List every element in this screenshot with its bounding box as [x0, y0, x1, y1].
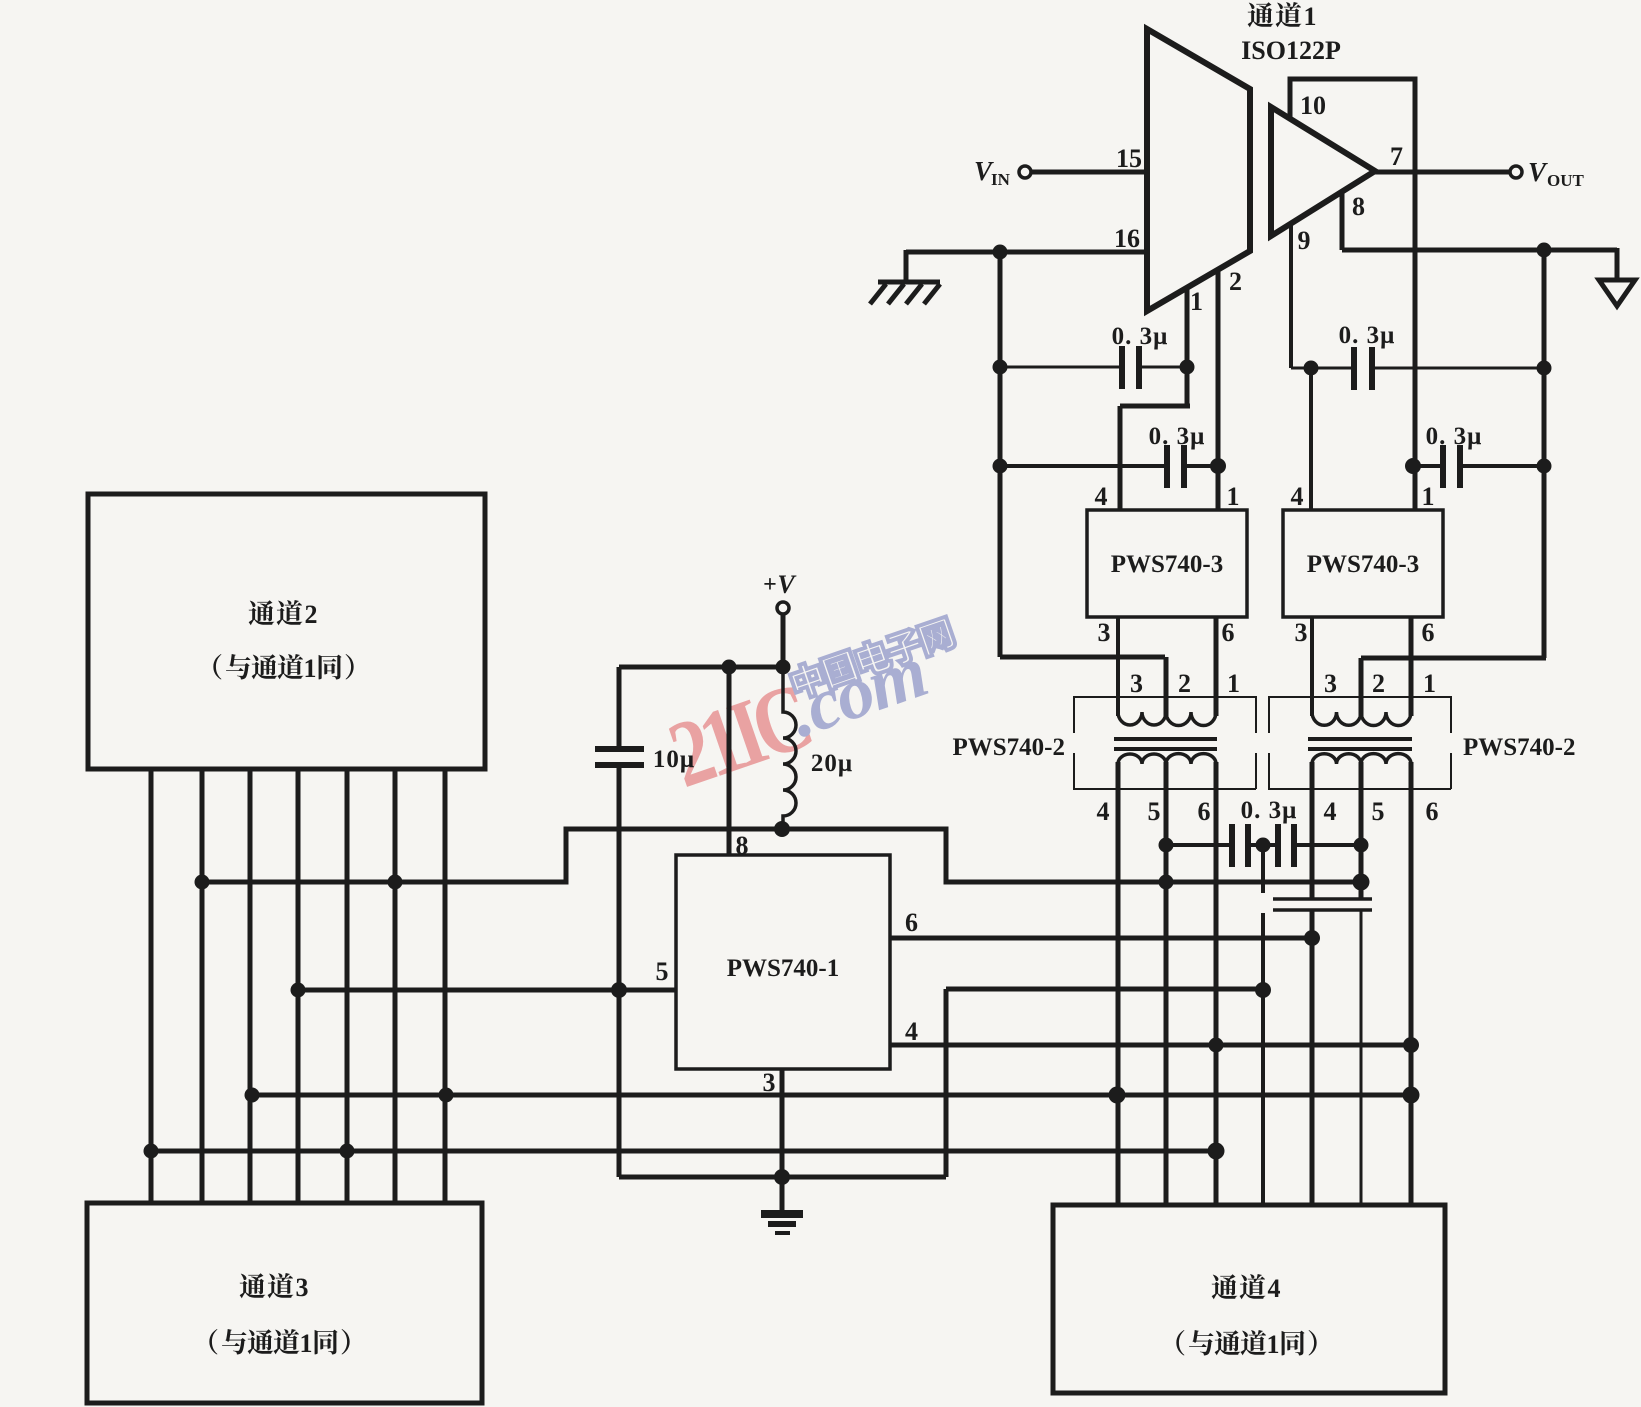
wire T2 pin6 down to CH4	[1409, 762, 1414, 1205]
svg-text:3: 3	[1098, 618, 1111, 647]
junction bus/T1 pin5	[1159, 875, 1174, 890]
svg-text:2: 2	[1178, 669, 1191, 698]
capacitor C6 (horizontal plates)	[1273, 899, 1372, 910]
svg-text:1: 1	[300, 1329, 313, 1358]
junction C3 right	[1537, 361, 1552, 376]
label (与通道1同)	[1176, 1330, 1184, 1356]
watermark 21IC.com 中国电子网	[657, 610, 978, 808]
wire T1 pin4 down to CH4	[1116, 762, 1121, 1205]
label 通道1	[1248, 2, 1274, 27]
wire +V row	[619, 665, 783, 670]
junction pin4/T2 pin6	[1403, 1037, 1419, 1053]
junction pin5/v4	[291, 983, 306, 998]
junction bus/v6	[388, 875, 403, 890]
wire U2 pin3 to T1 pin3	[1116, 617, 1120, 716]
svg-text:7: 7	[1390, 142, 1403, 171]
svg-text:6: 6	[1198, 797, 1211, 826]
transformer T2 primary winding	[1312, 700, 1411, 726]
svg-text:V: V	[777, 570, 797, 599]
svg-text:2: 2	[1372, 669, 1385, 698]
svg-text:20μ: 20μ	[811, 750, 853, 777]
svg-text:15: 15	[1116, 144, 1142, 173]
wire pin 8 lead	[1340, 190, 1345, 250]
wire CH2 bus v3	[248, 769, 253, 1203]
wire pin1-to-pin4 jog	[1120, 404, 1190, 409]
terminal +V	[777, 602, 789, 614]
wire ground lead output	[1615, 248, 1620, 281]
wire CH2 bus v1	[149, 769, 154, 1203]
wire CH2 bus v6	[393, 769, 398, 1203]
wire PWS740-3L pin 4 lead	[1118, 406, 1123, 510]
junction C5 right	[1354, 838, 1369, 853]
wire pin 6 row	[890, 936, 1312, 941]
svg-text:+: +	[763, 572, 777, 598]
svg-text:1: 1	[1190, 287, 1203, 316]
svg-text:V: V	[1528, 157, 1548, 187]
wire U3 pin3 to T2 pin3	[1310, 617, 1314, 716]
wire bus y1151	[151, 1149, 1216, 1154]
junction C1 left	[993, 360, 1008, 375]
wire pin 5 row	[298, 988, 676, 993]
wire pin 3 ground lead	[780, 1069, 785, 1211]
svg-text:1: 1	[1227, 482, 1240, 511]
junction C2 right / pin2	[1210, 458, 1226, 474]
terminal V_IN	[1019, 166, 1031, 178]
wire CH2 bus v5	[345, 769, 350, 1203]
svg-text:10μ: 10μ	[653, 746, 695, 773]
wire gnd row y1177	[619, 1175, 946, 1180]
oscillator U4 PWS740-1	[676, 855, 890, 1069]
svg-text:1: 1	[1227, 669, 1240, 698]
label 通道3	[240, 1273, 266, 1298]
svg-text:10: 10	[1300, 91, 1326, 120]
junction pin4/T1 pin6	[1209, 1038, 1224, 1053]
transformer T2 PWS740-2 box	[1269, 697, 1451, 789]
junction pin9/pin4R	[1304, 361, 1319, 376]
wire x1000 input-gnd vertical	[998, 250, 1003, 657]
svg-text:16: 16	[1114, 224, 1140, 253]
wire T1 pin2 lead	[1164, 657, 1169, 716]
junction bus/L1 bottom	[774, 821, 790, 837]
wire CH2 bus v4	[296, 769, 301, 1203]
junction C1 right / pin1	[1180, 360, 1195, 375]
wire output ground row	[1342, 248, 1617, 253]
junction bus/T2 pin5	[1353, 874, 1370, 891]
rectifier U3 PWS740-3 right	[1283, 510, 1443, 617]
svg-text:ISO122P: ISO122P	[1241, 36, 1341, 65]
block 通道4	[1053, 1205, 1445, 1393]
svg-text:0. 3μ: 0. 3μ	[1339, 322, 1396, 349]
junction +V/pin8	[722, 660, 737, 675]
svg-text:1: 1	[304, 654, 317, 683]
wire T2 pin5 to cap plate	[1359, 762, 1364, 899]
svg-text:6: 6	[1426, 797, 1439, 826]
wire U3 pin6 to T2 pin1	[1409, 617, 1414, 716]
svg-text:4: 4	[1324, 797, 1337, 826]
svg-text:4: 4	[1291, 482, 1304, 511]
junction pin3/gnd row	[774, 1169, 790, 1185]
wire CH2 bus v2	[200, 769, 205, 1203]
svg-text:5: 5	[1148, 797, 1161, 826]
svg-text:PWS740-3: PWS740-3	[1307, 551, 1420, 578]
wire gnd row y989	[946, 987, 1263, 992]
junction C4 left / pin1R	[1405, 458, 1421, 474]
junction y1095/T1 pin4	[1109, 1087, 1126, 1104]
wire pin 15 input	[1031, 170, 1147, 175]
svg-text:1: 1	[1267, 1330, 1280, 1359]
wire T2 pin5 below cap to CH4	[1360, 910, 1363, 1205]
wire pin 1 lead	[1185, 288, 1190, 406]
junction gnd/centre node	[1255, 982, 1271, 998]
junction pin6/T2 pin4	[1304, 930, 1320, 946]
wire pin 7 output	[1375, 170, 1510, 175]
svg-text:0. 3μ: 0. 3μ	[1149, 423, 1206, 450]
svg-text:3: 3	[1324, 669, 1337, 698]
junction +V/L1	[776, 660, 791, 675]
transformer T1 secondary winding	[1118, 754, 1216, 786]
junction bus/v2	[195, 875, 210, 890]
ground input side (hatched)	[870, 282, 940, 304]
svg-text:3: 3	[296, 1273, 309, 1302]
ground output side (open triangle)	[1599, 280, 1635, 306]
junction y1095/v7	[439, 1088, 454, 1103]
inductor L1 20u	[783, 667, 796, 829]
transformer T1 primary winding	[1118, 700, 1216, 726]
svg-text:5: 5	[656, 957, 669, 986]
wire centre node down to CH4	[1261, 913, 1265, 1205]
junction y1095/T2 pin6	[1403, 1087, 1420, 1104]
ground PWS740-1 (bar style)	[761, 1214, 803, 1233]
svg-text:4: 4	[1095, 482, 1108, 511]
wire bus y882/y829 stepped	[202, 829, 1361, 882]
label 通道4	[1212, 1274, 1238, 1299]
transformer T2 secondary winding	[1312, 754, 1411, 786]
wire pin 16 ground row	[906, 250, 1147, 255]
junction C5 left	[1159, 838, 1174, 853]
wire pin 2 lead to PWS740-3L pin1	[1216, 268, 1221, 510]
label 通道2	[249, 600, 275, 625]
svg-text:6: 6	[905, 908, 918, 937]
wire bus y1095	[252, 1093, 1411, 1098]
svg-text:2: 2	[305, 600, 318, 629]
wire CH2 bus v7	[443, 769, 448, 1203]
svg-text:4: 4	[1097, 797, 1110, 826]
wire pin 9 lead	[1289, 222, 1293, 368]
junction y1151/v1	[144, 1144, 159, 1159]
svg-text:0. 3μ: 0. 3μ	[1112, 323, 1169, 350]
wire PWS740-3R pin 4 lead	[1309, 368, 1313, 510]
U1 output section box (pin 10 feedback)	[1290, 79, 1415, 510]
svg-text:4: 4	[905, 1017, 918, 1046]
junction C5 centre	[1256, 838, 1271, 853]
block 通道3	[87, 1203, 482, 1403]
svg-text:0. 3μ: 0. 3μ	[1241, 797, 1298, 824]
svg-text:6: 6	[1222, 618, 1235, 647]
svg-text:1: 1	[1304, 2, 1317, 31]
junction pin16/bypass	[993, 245, 1008, 260]
svg-text:0. 3μ: 0. 3μ	[1426, 423, 1483, 450]
junction C4 right	[1537, 459, 1552, 474]
svg-text:PWS740-2: PWS740-2	[953, 734, 1066, 761]
svg-text:1: 1	[1423, 669, 1436, 698]
svg-text:PWS740-1: PWS740-1	[727, 955, 840, 982]
terminal V_OUT	[1510, 166, 1522, 178]
isolation amp U1 input trapezoid	[1147, 29, 1250, 311]
svg-text:5: 5	[1372, 797, 1385, 826]
block 通道2	[88, 494, 485, 769]
wire x1544 output-gnd vertical	[1542, 250, 1547, 658]
wire T2 pin2 lead	[1359, 658, 1364, 716]
wire +V lead	[781, 614, 786, 667]
svg-text:6: 6	[1422, 618, 1435, 647]
wire ground lead input	[904, 250, 909, 281]
junction y1151/v5	[340, 1144, 355, 1159]
transformer T1 PWS740-2 box	[1074, 697, 1256, 789]
transformer T1 core	[1114, 739, 1217, 749]
wire pin 4 row	[890, 1043, 1411, 1048]
junction C2 left	[993, 459, 1008, 474]
wire U2 pin6 to T1 pin1	[1214, 617, 1219, 716]
rectifier U2 PWS740-3 left	[1087, 510, 1247, 617]
wire gnd link x946	[944, 989, 949, 1177]
svg-text:4: 4	[1268, 1274, 1281, 1303]
svg-text:PWS740-2: PWS740-2	[1463, 734, 1576, 761]
label (与通道1同)	[213, 654, 221, 680]
wire C5 centre stub	[1261, 845, 1265, 893]
junction y1095/v3	[245, 1088, 260, 1103]
junction y1151/T1 pin6	[1208, 1143, 1225, 1160]
wire right gnd link y658	[1361, 656, 1546, 661]
svg-text:OUT: OUT	[1547, 171, 1585, 190]
wire T1 pin5 down to CH4	[1164, 762, 1169, 1205]
svg-text:3: 3	[1295, 618, 1308, 647]
wire left gnd link y657	[1000, 655, 1165, 660]
label (与通道1同)	[209, 1329, 217, 1355]
wire T2 pin4 to cap plate	[1310, 762, 1315, 899]
wire pin 8 lead	[727, 667, 732, 855]
junction output gnd/x1544	[1537, 243, 1552, 258]
svg-text:9: 9	[1298, 226, 1311, 255]
isolation amp U1 output triangle	[1271, 107, 1375, 236]
svg-text:2: 2	[1229, 267, 1242, 296]
transformer T2 core	[1308, 739, 1412, 749]
svg-text:IN: IN	[991, 170, 1011, 189]
junction pin5/C7	[611, 982, 627, 998]
wire T2 pin4 below cap to CH4	[1310, 910, 1315, 1205]
svg-text:1: 1	[1422, 482, 1435, 511]
capacitor C7 10u	[617, 667, 622, 749]
svg-text:3: 3	[1130, 669, 1143, 698]
wire T1 pin6 down to CH4	[1214, 762, 1219, 1205]
svg-text:PWS740-3: PWS740-3	[1111, 551, 1224, 578]
svg-text:8: 8	[1352, 192, 1365, 221]
